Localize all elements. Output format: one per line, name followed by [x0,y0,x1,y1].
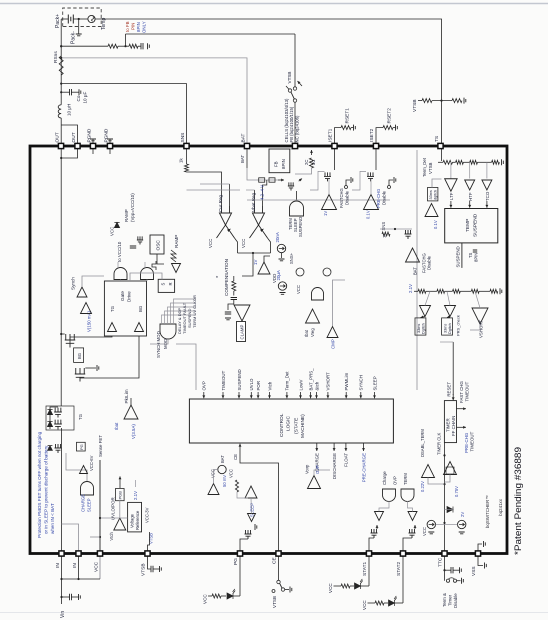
wire latch to gate drive [130,273,162,281]
capacitor Co [70,89,72,95]
svg-text:10 μH: 10 μH [67,104,72,116]
wire comp rc [233,276,235,281]
switch CELLS pole [293,99,296,102]
wire ISET1 external [335,128,342,146]
transistor protection FET1 [54,420,62,430]
ground CE [290,587,292,593]
svg-text:TIMER: TIMER [446,418,451,432]
svg-text:TIMEOUT: TIMEOUT [221,370,226,390]
transistor bottom NMOS [75,368,86,382]
capacitor TTC [451,567,453,573]
svg-text:OVP: OVP [315,465,320,474]
gate charge pump AND [312,288,324,301]
box 33ms deglitch 2 [442,318,453,335]
wire prechg sw [389,180,393,186]
arrow input BAT_PRS_ [310,392,312,398]
svg-text:or in SLEEP to prevent dischar: or in SLEEP to prevent discharge of batt… [44,445,49,534]
resistor STAT1 [341,584,350,588]
resistor ladder2 r1 [418,289,426,293]
pin ISET1 [332,143,337,148]
arrow CE into logic [239,444,241,450]
op-amp Cur Reg output arrow [227,229,231,232]
junction gm node [252,252,254,254]
svg-text:DISCHARGE: DISCHARGE [332,453,337,479]
svg-text:FLOAT: FLOAT [344,453,349,467]
wire ISET2 external [376,128,383,146]
wire sns to curreg [187,172,222,206]
svg-text:2V: 2V [460,512,465,517]
svg-text:STAT1: STAT1 [362,561,368,576]
transistor ramp discharge [137,236,143,244]
svg-text:VSHORT: VSHORT [479,319,484,338]
box TEMP SUSPEND [445,209,498,243]
box 33ms deglitch 1 [415,318,426,335]
svg-text:PRS_check: PRS_check [456,315,461,336]
wire divider mid [118,45,129,47]
arrow input &tch [316,392,318,398]
ground fastchg sw [351,177,353,183]
svg-text:BG: BG [77,353,82,359]
op-amp uvlo [114,518,126,530]
svg-text:SUSPEND: SUSPEND [237,369,242,390]
box FB 8PIN [269,149,290,173]
wire FB divider [61,45,108,47]
svg-text:VCC: VCC [229,469,234,478]
wire bat divider [247,168,278,180]
wire batprs route [214,470,218,484]
arrow prechg timeout [457,426,467,428]
IC boundary box bq241xx [30,146,507,554]
wire tss out [296,191,298,200]
svg-text:ISET1: ISET1 [328,128,334,142]
svg-text:dgltch: dgltch [434,190,438,200]
ground RSET2 [396,125,398,131]
wire TS internal [441,146,443,161]
pin TS [438,143,443,148]
svg-text:TCO: TCO [485,191,490,201]
svg-text:1k: 1k [179,158,184,163]
arrow divider tap [278,179,284,181]
gate charge sleep [81,482,94,496]
resistor RSns [59,56,63,75]
wire PG net ext [239,554,241,597]
capacitor VTSB [151,566,153,572]
arrow POR [119,476,121,488]
wire gm to comp [242,253,253,276]
wire VCC to R stat2 [368,602,376,604]
svg-text:ISET2: ISET2 [369,128,375,142]
wire ladder2 s4 [479,290,490,292]
wire vref to vcc [100,517,128,519]
ground pg fet [255,524,257,530]
svg-text:OSC: OSC [156,240,162,251]
svg-text:VSHORT: VSHORT [326,372,331,391]
svg-text:Pack+: Pack+ [55,14,61,28]
wire IN join bar [62,578,101,580]
svg-text:Vovp: Vovp [305,464,310,474]
wire RT1 to TS line [432,100,452,102]
gate STAT1 driver [383,489,396,502]
svg-text:2.1V: 2.1V [133,491,138,500]
wire TTC jumper gnd [457,580,461,582]
svg-text:Vin: Vin [60,611,66,618]
pin IN2 [76,551,81,556]
svg-text:PG: PG [79,444,84,450]
svg-text:Ibat: Ibat [304,329,309,337]
wire throw to FB line [294,34,296,87]
switch prechg dis [388,186,391,189]
svg-text:CLAMP: CLAMP [239,325,244,340]
svg-text:Term_Det: Term_Det [422,157,427,177]
square wave symbol [152,261,156,270]
junction IN bar1 [60,578,62,580]
svg-text:Term_Det: Term_Det [285,371,290,391]
LED STAT2 [389,600,395,606]
wire ladder2 s3 [460,290,471,292]
junction BAT tap [60,57,62,59]
box PG small [77,442,86,451]
wire STAT1 ext [368,554,370,587]
wire l2 tap2 [447,291,450,305]
wire gate1 to buf [379,501,389,512]
svg-text:MOD: MOD [156,331,161,341]
svg-text:IN: IN [72,563,78,568]
pin VSS [475,551,480,556]
svg-text:Reference: Reference [135,510,140,530]
arrow input OVP [203,392,205,398]
comparator lowv [420,306,431,317]
pin PGND [90,143,95,148]
junction Pack- node [78,18,80,20]
svg-text:bqSWITCHER™: bqSWITCHER™ [485,495,490,528]
arrow input PWMLim [345,392,347,398]
svg-text:VSS: VSS [471,566,477,576]
transistor STAT1 fet [371,529,378,538]
wire input cap gnd [72,596,79,598]
svg-text:Voltage: Voltage [130,513,135,528]
wire RESET riser [440,341,453,343]
wire BG gate in [144,262,146,268]
pin IN [59,551,64,556]
wire IN internal 1 [61,428,63,554]
svg-text:CE: CE [272,557,278,564]
svg-text:VTSB: VTSB [272,596,277,608]
svg-text:VCC: VCC [362,600,367,610]
svg-text:R: R [168,282,173,285]
wire STAT2 ext [402,554,404,604]
op-amp iset2 [364,195,379,210]
ground ladder2 [500,288,502,294]
transistor term fet [288,182,294,190]
wire Vin cap stub [62,596,70,598]
wire IN pin1 ext [61,554,63,580]
wire SNS net [61,84,186,146]
svg-text:*Patent Pending #36889: *Patent Pending #36889 [513,447,523,555]
svg-text:VCC: VCC [211,469,216,478]
svg-text:Timer: Timer [448,594,453,606]
wire sleep in [237,492,248,498]
wire TIMER CLK net [444,443,446,554]
wire CELLS pin to pole [294,103,296,147]
switch CELLS blade [291,92,295,99]
gate BG logic [141,268,154,280]
diode VCC ramp [114,222,119,227]
junction Vin cap tap [60,596,62,598]
wire ISET2 internal [375,146,377,170]
wire SNS internal [186,146,188,164]
svg-text:8PIN: 8PIN [136,22,141,32]
op-amp Cur Reg [217,206,235,238]
wire BG gate to box [146,280,148,282]
box PGB [116,489,125,501]
svg-text:FF CHAIN: FF CHAIN [451,416,456,436]
svg-text:OUT: OUT [71,132,77,142]
junction pmos out [60,333,62,335]
arrow output DISCHARGE [333,443,335,451]
current source 20uA [278,282,286,290]
svg-text:0.75V: 0.75V [454,486,459,497]
arrow output FLOAT [345,443,347,451]
pin VTSB [145,551,150,556]
pin CE [276,551,281,556]
ground timer cs1 [428,532,434,534]
wire dsabl in [428,478,445,485]
box gate drive [104,281,146,336]
resistor ladder1 r4 [492,160,500,164]
resistor ladder2 r3 [453,289,461,293]
svg-text:SYNCH: SYNCH [359,375,364,390]
arrow input POR [257,392,259,398]
diode body FET2 [47,409,52,414]
junction Co tap [60,91,62,93]
svg-text:Cur Reg: Cur Reg [218,194,223,212]
op-amp SLEEP comparator [245,486,257,498]
svg-text:20nA: 20nA [275,232,280,242]
comparator LTF [445,179,458,192]
ground timer cs2 [459,532,465,534]
buffer stat2 [408,512,417,521]
pin PGND2 [107,143,112,148]
resistor divider box2 [269,178,275,182]
svg-text:LTF: LTF [449,192,454,200]
junction vref vcc [99,517,101,519]
svg-text:Vbat Reg: Vbat Reg [251,192,256,212]
op-amp fastchg2 [406,248,420,262]
arrow input SLEEP [374,392,376,398]
resistor PG pullup [212,594,221,598]
svg-text:OVP: OVP [202,381,207,390]
page edge line [0,3,548,5]
wire OUT net external rail [60,118,62,146]
wire prot fets link [50,407,58,429]
wire VCC to R stat1 [334,585,342,587]
wire LED to STAT1 [361,585,370,587]
arrow input Term_Det [286,392,288,398]
junction FB node [124,45,126,47]
ground VSS [485,563,487,569]
wire 2p1 ref [135,480,137,487]
resistor divider R1 [108,44,118,48]
comparator TCO [482,180,492,190]
buffer synch [77,287,87,297]
svg-text:BAT_PRS_: BAT_PRS_ [308,368,313,391]
svg-text:Pack-: Pack- [71,31,77,44]
wire PGND stub [92,139,94,146]
wire FB line [126,33,296,35]
svg-text:BAT: BAT [220,455,225,463]
capacitor ramp [130,246,136,248]
wire fastchg sw [346,180,350,186]
wire curreg in2 src [200,183,230,185]
svg-text:1V: 1V [253,260,258,265]
wire ladder tap TCO [486,162,488,178]
wire FB node to FB line [125,34,127,46]
box TIMER FF CHAIN [444,401,456,443]
wire cmp route [333,280,346,326]
wire pkilim out [130,398,132,405]
arrow input VSHORT [327,392,329,398]
inductor L 10uH [58,105,61,118]
ground RSET1 [354,125,356,131]
wire Pack- stub [78,19,80,34]
wire mod input 4 [171,303,197,324]
op-amp BAT presence [208,484,219,495]
resistor ladder1 r2 [456,160,464,164]
pin CELLS [292,143,297,148]
svg-text:VTSB: VTSB [141,563,147,576]
svg-text:VCC: VCC [328,583,333,593]
svg-text:1V: 1V [323,211,328,216]
box 33ms deglitch term [428,188,438,201]
capacitor input [70,594,72,600]
resistor RT1 [422,99,432,103]
svg-text:Synch: Synch [71,277,76,290]
jumper TTC arc [449,578,455,579]
wire l2 tap1 [425,291,430,305]
svg-text:(STATE: (STATE [294,418,300,434]
wire vbatreg out [268,238,271,253]
svg-text:TTC: TTC [438,557,444,567]
svg-text:SNS+: SNS+ [289,252,294,264]
wire ladder seg1 [453,161,456,163]
arrow lowv out [421,317,426,318]
capacitor comp2 [225,312,231,314]
wire TG out [70,336,112,343]
svg-text:(Vpp=VCC/10): (Vpp=VCC/10) [130,193,135,222]
junction divider tap [60,45,62,47]
resistor 1k sns [185,164,189,172]
svg-text:Charge: Charge [382,471,387,485]
wire TS net [95,19,441,146]
svg-text:RESET: RESET [447,382,452,397]
svg-text:STAT2: STAT2 [396,561,402,576]
comparator term det [425,204,438,217]
wire sleep chain [250,498,253,514]
svg-text:CE: CE [233,454,238,460]
arrow input LowV [300,392,302,398]
resistor comp [232,281,236,291]
svg-text:VTSB: VTSB [287,72,292,84]
wire vshort out [470,324,480,330]
svg-text:50 mV: 50 mV [222,475,227,487]
svg-text:2C: 2C [304,160,309,165]
svg-text:NC (bq24106): NC (bq24106) [294,115,299,143]
resistor RSET2 [383,126,393,130]
op-amp PkILim [124,405,138,419]
svg-text:PG: PG [233,558,239,565]
jumper TTC a [446,579,449,582]
symbol mirror circle 2 [323,268,331,276]
svg-text:Vreg: Vreg [310,328,315,337]
svg-text:Ibat: Ibat [114,422,119,430]
wire CE net [240,450,279,554]
box protection fets [46,406,74,430]
switch CE vtsb contact [272,590,275,593]
svg-text:when IN < BAT: when IN < BAT [50,503,55,534]
junction rail A [60,45,62,47]
wire ladder seg2 [463,161,469,163]
wire RSET2 gnd stub [393,127,396,129]
resistor divider R2 [129,44,138,48]
svg-text:COMPENSATION: COMPENSATION [224,259,229,296]
arrow LTF to box [450,201,452,208]
svg-text:PIN: PIN [131,23,136,30]
svg-text:Dgltch: Dgltch [422,323,426,334]
svg-text:TG: TG [78,413,83,420]
svg-text:V(3.5A): V(3.5A) [131,424,136,439]
svg-text:Term &: Term & [442,593,447,607]
wire iset1 fet up [310,171,325,190]
resistor sleep [235,480,238,492]
diode body FET1 [47,421,52,426]
wire CE throw gnd [285,589,289,591]
junction sns branch [394,228,396,230]
svg-text:RSET2: RSET2 [387,108,393,124]
diode zener timer [447,507,453,513]
buffer BG driver [135,323,144,332]
box CONTROL LOGIC state machine [189,399,393,443]
current source timer 2 [458,520,466,528]
ground prechg sw [394,177,396,183]
wire CE ext [278,554,280,581]
wire pg fet out [240,539,248,554]
wire gate2 to buf [408,501,413,512]
wire vtsb ladder [438,161,443,163]
svg-text:TG: TG [110,305,115,312]
svg-text:VCC: VCC [422,527,427,536]
arrow output PRE-CHARGE [363,443,365,451]
switch CE throw [281,588,284,591]
wire termdet out [432,179,442,188]
junction timer 1 [443,522,445,524]
svg-text:&tch: &tch [314,381,319,390]
svg-text:Disable: Disable [345,190,350,205]
wire BG out [80,336,139,378]
wire IN pin2 ext [78,554,80,580]
svg-text:PGB: PGB [118,491,123,500]
svg-text:TIMEOUT: TIMEOUT [470,431,475,451]
svg-text:Drive: Drive [127,291,132,302]
wire vbat route [247,199,390,201]
switch CE blade [280,584,282,589]
svg-text:PGND: PGND [104,128,110,142]
ramp sawtooth symbol [171,250,176,262]
svg-text:Disable: Disable [427,255,432,270]
diode sense fet [48,446,53,451]
transistor STAT2 fet [409,529,416,538]
wire BAT internal [246,146,248,168]
svg-text:Vtch: Vtch [109,532,114,541]
